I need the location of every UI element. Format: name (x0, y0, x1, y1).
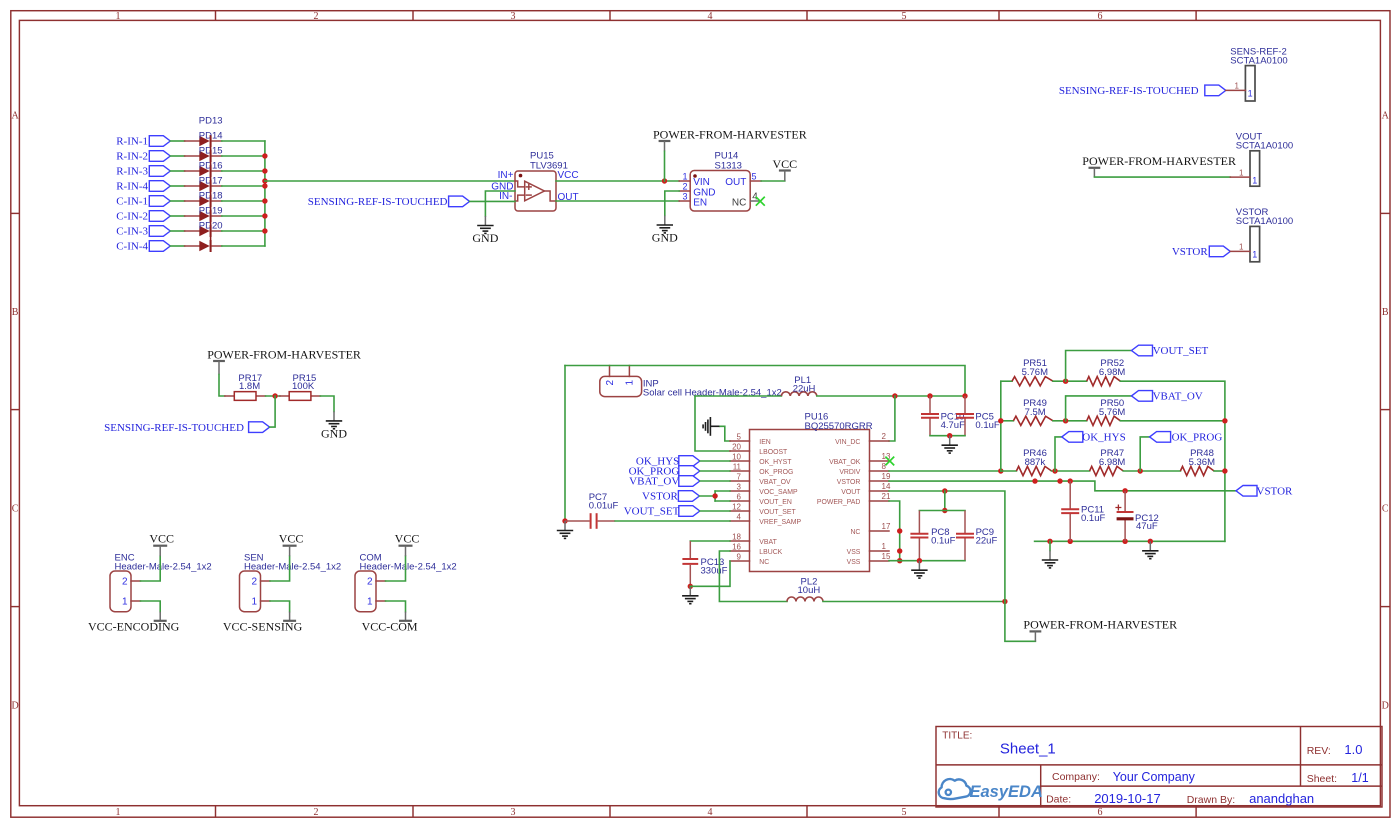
svg-text:18: 18 (732, 532, 741, 541)
svg-text:R-IN-2: R-IN-2 (116, 151, 148, 163)
power POWER-FROM-HARVESTER (207, 347, 361, 374)
svg-text:VCC-COM: VCC-COM (362, 620, 418, 634)
svg-text:C: C (12, 504, 19, 515)
svg-text:1: 1 (1234, 82, 1239, 91)
wire (700, 460, 730, 462)
svg-text:2: 2 (314, 807, 319, 818)
resistor PR46 887k (1016, 448, 1051, 476)
svg-text:IN+: IN+ (498, 170, 514, 181)
svg-text:VOUT_SET: VOUT_SET (759, 509, 796, 516)
svg-text:VOUT_SET: VOUT_SET (624, 506, 680, 518)
resistor PR48 5.36M (1180, 448, 1215, 476)
net port R-IN-3 (116, 166, 170, 178)
wire (1002, 420, 1014, 422)
no-connect pin4 (756, 197, 765, 206)
wire (695, 396, 730, 451)
capacitor PC8 0.1uF (910, 511, 955, 561)
svg-text:TITLE:: TITLE: (942, 730, 972, 741)
svg-text:2019-10-17: 2019-10-17 (1094, 791, 1161, 806)
junction (942, 488, 947, 493)
svg-text:R-IN-4: R-IN-4 (116, 181, 148, 193)
power POWER-FROM-HARVESTER (1082, 154, 1236, 177)
svg-text:2: 2 (605, 380, 616, 386)
wire (889, 481, 1236, 491)
svg-text:1: 1 (1239, 168, 1244, 177)
wire (386, 556, 406, 581)
wire (1094, 176, 1230, 178)
svg-text:POWER-FROM-HARVESTER: POWER-FROM-HARVESTER (1023, 618, 1177, 632)
junction (262, 153, 267, 158)
wire (889, 501, 900, 561)
svg-text:EN: EN (693, 197, 707, 208)
svg-text:VSTOR: VSTOR (1257, 486, 1294, 498)
svg-text:3: 3 (737, 482, 742, 491)
wire (556, 180, 679, 182)
diode PD20 (185, 221, 223, 252)
diode PD18 (185, 191, 223, 222)
diode PD19 (185, 206, 223, 237)
svg-text:IN-: IN- (499, 191, 512, 202)
connector VOUT SCTA1A0100 (1236, 132, 1293, 187)
svg-text:1: 1 (122, 597, 128, 608)
net port VSTOR (1236, 486, 1293, 498)
svg-text:7: 7 (737, 472, 742, 481)
svg-text:2: 2 (682, 181, 687, 191)
net port VBAT_OV (1132, 391, 1203, 403)
svg-text:SENSING-REF-IS-TOUCHED: SENSING-REF-IS-TOUCHED (308, 196, 448, 208)
svg-text:OK_HYS: OK_HYS (1082, 432, 1125, 444)
svg-text:14: 14 (882, 482, 891, 491)
junction (262, 168, 267, 173)
wire (695, 395, 781, 397)
svg-text:Your Company: Your Company (1113, 770, 1196, 784)
capacitor PC11 0.1uF (1061, 481, 1105, 541)
junction (1122, 488, 1127, 493)
wire (823, 601, 1005, 603)
resistor PR15 100K (280, 373, 321, 400)
svg-text:Sheet:: Sheet: (1307, 773, 1337, 785)
net port C-IN-3 (116, 226, 170, 238)
wire (170, 185, 184, 187)
header ENC Header-Male-2.54_1x2 (110, 552, 212, 611)
junction (262, 228, 267, 233)
junction (897, 548, 902, 553)
wire (719, 551, 787, 602)
svg-text:VSS: VSS (847, 559, 861, 566)
wire (170, 155, 184, 157)
svg-text:VOUT: VOUT (841, 489, 861, 496)
junction (562, 518, 567, 523)
svg-text:5.76M: 5.76M (1022, 367, 1048, 378)
svg-text:NC: NC (759, 559, 769, 566)
svg-text:POWER-FROM-HARVESTER: POWER-FROM-HARVESTER (1082, 154, 1236, 168)
svg-text:PD13: PD13 (199, 116, 223, 127)
svg-text:REV:: REV: (1307, 745, 1331, 757)
svg-text:20: 20 (732, 442, 741, 451)
junction (1148, 539, 1153, 544)
svg-text:VBAT_OV: VBAT_OV (1153, 391, 1203, 403)
ground (682, 586, 698, 603)
svg-text:5.76M: 5.76M (1099, 407, 1125, 418)
net port VSTOR (1172, 246, 1230, 258)
wire (1123, 470, 1180, 472)
svg-text:VSTOR: VSTOR (1172, 246, 1209, 258)
svg-text:6: 6 (737, 492, 742, 501)
svg-text:VSS: VSS (847, 549, 861, 556)
svg-text:19: 19 (882, 472, 891, 481)
svg-text:anandghan: anandghan (1249, 791, 1314, 806)
svg-text:4: 4 (708, 11, 713, 22)
svg-text:R-IN-3: R-IN-3 (116, 166, 148, 178)
svg-text:6: 6 (1098, 11, 1103, 22)
svg-text:22uH: 22uH (793, 384, 816, 395)
power POWER-FROM-HARVESTER (1023, 618, 1177, 642)
junction (272, 393, 277, 398)
svg-text:0.1uF: 0.1uF (1081, 513, 1105, 524)
wire (222, 230, 265, 232)
svg-text:4: 4 (708, 807, 713, 818)
wire (944, 491, 946, 511)
wire (222, 155, 265, 157)
wire (1055, 437, 1062, 471)
wire (1226, 89, 1246, 91)
wire (386, 601, 406, 612)
capacitor PC7 0.01uF (565, 492, 618, 529)
svg-text:1: 1 (625, 380, 636, 386)
junction (262, 183, 267, 188)
power VCC (772, 157, 797, 181)
junction (897, 528, 902, 533)
capacitor PC10 4.7uF (921, 396, 965, 436)
svg-text:NC: NC (850, 529, 860, 536)
ground (942, 436, 958, 453)
junction (1047, 539, 1052, 544)
inductor PL1 22uH (781, 375, 816, 396)
wire (720, 426, 730, 441)
svg-text:A: A (11, 111, 19, 122)
junction (688, 584, 693, 589)
svg-text:VCC: VCC (279, 532, 304, 546)
svg-text:1: 1 (1252, 250, 1257, 260)
svg-text:VOUT_EN: VOUT_EN (759, 499, 792, 506)
inductor PL2 10uH (787, 577, 823, 602)
svg-text:1/1: 1/1 (1351, 771, 1368, 785)
svg-text:VCC: VCC (772, 157, 797, 171)
junction (1122, 539, 1127, 544)
svg-text:R-IN-1: R-IN-1 (116, 136, 148, 148)
svg-text:10uH: 10uH (798, 585, 821, 596)
svg-text:4: 4 (752, 191, 758, 202)
wire (170, 215, 184, 217)
svg-text:VOC_SAMP: VOC_SAMP (759, 489, 798, 496)
wire (930, 435, 965, 437)
ground (1049, 541, 1051, 550)
svg-text:GND: GND (472, 231, 498, 245)
svg-text:1: 1 (251, 597, 257, 608)
wire (1066, 396, 1132, 421)
power VCC-ENCODING (88, 612, 180, 634)
wire (270, 556, 290, 581)
wire (1001, 470, 1017, 472)
diode PD16 (185, 161, 223, 192)
svg-text:5: 5 (902, 11, 907, 22)
capacitor PC5 0.1uF (956, 396, 1000, 436)
wire (320, 396, 334, 411)
wire (270, 396, 276, 427)
junction (1068, 539, 1073, 544)
wire (1035, 540, 1225, 542)
wire (270, 601, 290, 612)
wire (1230, 176, 1250, 178)
capacitor PC12 47uF (1115, 491, 1158, 542)
wire (1066, 351, 1132, 382)
svg-text:5.36M: 5.36M (1189, 457, 1215, 468)
wire (1001, 380, 1012, 382)
junction (1138, 468, 1143, 473)
svg-text:VBAT_OV: VBAT_OV (759, 479, 791, 486)
wire (700, 510, 730, 512)
svg-text:C-IN-4: C-IN-4 (116, 241, 148, 253)
wire (222, 245, 265, 247)
svg-text:1: 1 (1248, 89, 1253, 99)
diode PD13 (185, 116, 223, 147)
header SEN Header-Male-2.54_1x2 (240, 552, 342, 611)
net port VBAT_OV (629, 476, 700, 488)
ground (557, 521, 573, 538)
svg-text:Header-Male-2.54_1x2: Header-Male-2.54_1x2 (115, 561, 212, 572)
net port SENSING-REF-IS-TOUCHED (1059, 85, 1226, 97)
net port R-IN-2 (116, 151, 170, 163)
wire (889, 491, 1005, 602)
svg-text:2: 2 (251, 577, 257, 588)
svg-text:VOUT_SET: VOUT_SET (1153, 345, 1209, 357)
svg-text:5: 5 (737, 432, 742, 441)
wire (889, 396, 895, 441)
svg-text:D: D (11, 701, 18, 712)
svg-text:0.1uF: 0.1uF (931, 536, 955, 547)
wire (556, 200, 679, 202)
wire (1230, 250, 1250, 252)
svg-text:1: 1 (116, 11, 121, 22)
svg-text:Date:: Date: (1046, 794, 1071, 806)
net port VOUT_SET (1132, 345, 1209, 357)
capacitor PC9 22uF (956, 511, 997, 561)
svg-text:VBAT_OK: VBAT_OK (829, 459, 861, 466)
connector SENS-REF-2 SCTA1A0100 (1230, 46, 1287, 101)
svg-text:C-IN-2: C-IN-2 (116, 211, 148, 223)
net port SENSING-REF-IS-TOUCHED (308, 196, 470, 208)
junction (892, 393, 897, 398)
power VCC-SENSING (223, 612, 303, 634)
wire (170, 230, 184, 232)
net port R-IN-1 (116, 136, 170, 148)
wire (715, 490, 730, 492)
svg-text:15: 15 (882, 552, 891, 561)
no-connect pin13 VBAT_OK (885, 457, 894, 466)
wire (222, 170, 265, 172)
wire (889, 560, 965, 562)
svg-text:VREF_SAMP: VREF_SAMP (759, 519, 801, 526)
net port R-IN-4 (116, 181, 170, 193)
svg-text:6: 6 (1098, 807, 1103, 818)
net port OK_HYS (636, 456, 700, 468)
svg-text:0.1uF: 0.1uF (975, 420, 999, 431)
junction (917, 558, 922, 563)
junction (712, 493, 717, 498)
svg-text:SCTA1A0100: SCTA1A0100 (1236, 141, 1293, 152)
net port VOUT_SET (624, 506, 700, 518)
wire (1052, 470, 1090, 472)
wire (565, 366, 965, 397)
power VCC (149, 532, 174, 557)
wire (664, 151, 666, 181)
svg-text:5: 5 (752, 172, 757, 182)
wire (264, 141, 266, 246)
svg-text:2: 2 (882, 432, 887, 441)
wire (715, 500, 730, 502)
svg-text:100K: 100K (292, 381, 315, 392)
junction (1063, 379, 1068, 384)
svg-text:1: 1 (882, 542, 887, 551)
wire (170, 200, 184, 202)
svg-text:21: 21 (882, 492, 891, 501)
wire (699, 495, 715, 497)
resistor PR51 5.76M (1012, 358, 1053, 386)
junction (662, 178, 667, 183)
connector VSTOR SCTA1A0100 (1236, 207, 1293, 262)
svg-text:3: 3 (682, 191, 687, 201)
svg-text:OK_PROG: OK_PROG (1172, 432, 1223, 444)
svg-text:B: B (1382, 307, 1389, 318)
svg-text:8: 8 (882, 462, 887, 471)
wire (1053, 380, 1087, 382)
svg-text:Sheet_1: Sheet_1 (1000, 741, 1056, 758)
power VCC-COM (362, 612, 418, 634)
IC PU16 BQ25570RGRR (730, 412, 891, 572)
wire (210, 136, 212, 252)
junction (1032, 478, 1037, 483)
wire (564, 366, 566, 522)
svg-text:SENSING-REF-IS-TOUCHED: SENSING-REF-IS-TOUCHED (104, 422, 244, 434)
ground (703, 417, 720, 436)
svg-text:IEN: IEN (759, 439, 771, 446)
wire (470, 200, 515, 202)
junction (1222, 468, 1227, 473)
svg-text:16: 16 (732, 542, 741, 551)
svg-text:TLV3691: TLV3691 (530, 160, 568, 171)
junction (262, 178, 267, 183)
junction (262, 213, 267, 218)
svg-text:2: 2 (122, 577, 128, 588)
svg-text:9: 9 (737, 552, 742, 561)
svg-text:2: 2 (367, 577, 373, 588)
svg-text:OK_PROG: OK_PROG (759, 469, 793, 476)
svg-text:6.98M: 6.98M (1099, 457, 1125, 468)
wire (170, 140, 184, 142)
wire (1000, 381, 1002, 471)
svg-text:POWER-FROM-HARVESTER: POWER-FROM-HARVESTER (207, 347, 361, 361)
resistor PR47 6.98M (1090, 448, 1126, 476)
junction (998, 418, 1003, 423)
svg-text:VBAT: VBAT (759, 539, 777, 546)
svg-text:22uF: 22uF (976, 536, 998, 547)
svg-text:Header-Male-2.54_1x2: Header-Male-2.54_1x2 (244, 561, 341, 572)
wire (222, 185, 265, 187)
capacitor PC13 330uF (682, 541, 727, 586)
wire (1120, 420, 1225, 422)
wire (690, 561, 730, 586)
svg-text:VCC-SENSING: VCC-SENSING (223, 620, 303, 634)
svg-text:1: 1 (682, 171, 687, 181)
wire (222, 215, 265, 217)
svg-text:LBOOST: LBOOST (759, 449, 788, 456)
wire (222, 200, 265, 202)
junction (262, 198, 267, 203)
ground (1142, 541, 1158, 558)
svg-text:887k: 887k (1025, 457, 1046, 468)
svg-text:VCC: VCC (149, 532, 174, 546)
svg-text:BQ25570RGRR: BQ25570RGRR (805, 421, 873, 432)
svg-text:POWER-FROM-HARVESTER: POWER-FROM-HARVESTER (653, 127, 807, 141)
svg-text:1.0: 1.0 (1344, 742, 1362, 757)
wire (222, 140, 265, 142)
resistor PR49 7.5M (1013, 398, 1053, 425)
junction (1002, 599, 1007, 604)
svg-text:10: 10 (732, 452, 741, 461)
svg-text:VSTOR: VSTOR (837, 479, 861, 486)
svg-text:12: 12 (732, 502, 741, 511)
svg-text:4: 4 (737, 512, 742, 521)
svg-text:5: 5 (902, 807, 907, 818)
header INP Solar cell Header-Male-2.54_1x2 (600, 366, 782, 399)
svg-text:C: C (1382, 504, 1389, 515)
wire (690, 540, 730, 542)
regulator PU14 S1313 (679, 150, 761, 211)
svg-text:SCTA1A0100: SCTA1A0100 (1236, 216, 1293, 227)
svg-text:VCC: VCC (558, 170, 579, 181)
svg-text:4.7uF: 4.7uF (941, 420, 965, 431)
svg-text:POWER_PAD: POWER_PAD (817, 499, 861, 506)
svg-text:GND: GND (652, 231, 678, 245)
title block (936, 727, 1382, 808)
diode PD15 (185, 146, 223, 177)
net port VSTOR (642, 491, 699, 503)
svg-text:SENSING-REF-IS-TOUCHED: SENSING-REF-IS-TOUCHED (1059, 85, 1199, 97)
net port OK_HYS (1062, 432, 1126, 444)
power VCC (279, 532, 304, 557)
wire (170, 170, 184, 172)
svg-text:VCC-ENCODING: VCC-ENCODING (88, 620, 180, 634)
ground (911, 561, 927, 578)
junction (947, 433, 952, 438)
svg-text:3: 3 (511, 11, 516, 22)
resistor PR52 6.98M (1087, 358, 1126, 386)
net port OK_PROG (1150, 432, 1223, 444)
junction (1052, 468, 1057, 473)
junction (897, 558, 902, 563)
wire (700, 470, 730, 472)
svg-text:NC: NC (732, 197, 746, 208)
svg-text:3: 3 (511, 807, 516, 818)
junction (1057, 478, 1062, 483)
wire (219, 375, 225, 397)
svg-text:1: 1 (116, 807, 121, 818)
svg-text:SCTA1A0100: SCTA1A0100 (1230, 55, 1287, 66)
net port C-IN-2 (116, 211, 170, 223)
wire (1214, 470, 1225, 472)
wire (700, 480, 730, 482)
svg-text:B: B (12, 307, 19, 318)
